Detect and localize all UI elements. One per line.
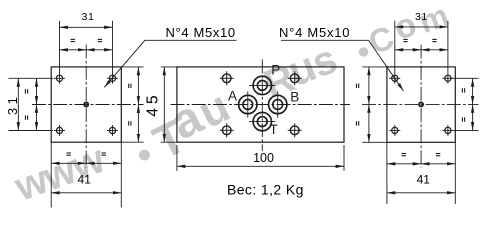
port T [249, 112, 275, 130]
left view bottom: edge witness lines [50, 142, 52, 207]
right view hole top-left [389, 73, 400, 84]
svg-text:45: 45 [144, 91, 161, 116]
right view top dimension 31: witness lines [394, 21, 396, 73]
svg-text:N°4 M5x10: N°4 M5x10 [166, 25, 236, 40]
svg-text:Вес: 1,2 Kg: Вес: 1,2 Kg [227, 182, 304, 198]
middle view top/bottom edge extensions left [161, 66, 177, 68]
left view top equal-split dimension line [60, 49, 87, 51]
left view top equal marks [71, 39, 102, 41]
left view top dimension 31: dimension line [60, 26, 113, 28]
right view top dimension 31 line [395, 26, 448, 28]
right view bottom dimension 41 line [387, 192, 455, 194]
svg-text:N°4 M5x10: N°4 M5x10 [279, 25, 350, 40]
svg-text:T: T [270, 122, 278, 137]
left view center hole [84, 102, 88, 106]
middle view corner hole top-left [220, 71, 234, 85]
left view plate outline [51, 67, 121, 142]
right view top equal marks [403, 39, 436, 41]
svg-text:A: A [228, 89, 237, 104]
svg-text:31: 31 [5, 94, 20, 115]
svg-text:41: 41 [78, 172, 92, 186]
port A [239, 91, 257, 117]
right view horizontal centerline [362, 103, 479, 105]
callout leader right [281, 39, 369, 41]
right view bottom: edge witness lines [386, 142, 388, 204]
svg-text:41: 41 [417, 172, 431, 186]
svg-text:31: 31 [415, 11, 428, 23]
middle view bottom dimension 100 line [177, 165, 344, 167]
middle view bottom dimension 100: witness lines [176, 145, 178, 171]
right view hole top-right [442, 73, 453, 84]
middle view plate outline [177, 67, 344, 142]
left view left dimension 31: witness lines [9, 77, 54, 79]
svg-text:B: B [290, 90, 299, 105]
port P [249, 76, 275, 94]
left view left equal-split dimension line [36, 78, 38, 104]
left view bottom dimension 41 line [51, 192, 121, 194]
right view right side: hole row extensions [453, 77, 479, 79]
right view plate outline [387, 67, 455, 142]
right view left side: edge extensions [362, 66, 387, 68]
left view left dimension 31: dimension line [17, 78, 19, 130]
middle view corner hole bottom-left [220, 123, 234, 137]
right view left equal-split dimension line [368, 67, 370, 105]
left view bottom equal-split dimension line [51, 162, 86, 164]
left view horizontal centerline [32, 104, 144, 106]
left view vertical centerline [85, 45, 87, 168]
middle view corner hole bottom-right [288, 123, 302, 137]
right view hole bottom-left [389, 125, 400, 136]
right view left equal marks [357, 84, 359, 126]
right view right equal-split dimension line [472, 78, 474, 104]
right view right equal marks [462, 88, 464, 122]
left view right equal-split dimension line [137, 67, 139, 105]
middle view corner hole top-right [288, 71, 302, 85]
left view top dimension 31: witness lines [59, 21, 61, 73]
left view left equal marks [25, 89, 27, 120]
left view bottom equal marks [67, 153, 106, 155]
left view hole bottom-left [54, 125, 65, 136]
right view hole bottom-right [442, 125, 453, 136]
right view vertical centerline [420, 45, 422, 168]
middle view vertical centerline [261, 60, 263, 152]
left view right side: edge extensions [121, 66, 143, 68]
right view bottom equal marks [402, 154, 441, 156]
right view bottom equal-split dimension line [387, 163, 421, 165]
left view hole top-right [107, 73, 118, 84]
right view top equal-split dimension line [395, 49, 421, 51]
callout leader left [145, 39, 237, 41]
middle view horizontal centerline [171, 104, 351, 106]
left view hole bottom-right [107, 125, 118, 136]
left view right equal marks [129, 84, 131, 126]
svg-text:P: P [271, 62, 280, 77]
svg-text:31: 31 [82, 11, 95, 23]
middle view 45 dimension line [163, 67, 165, 142]
svg-text:100: 100 [253, 151, 274, 165]
left view hole top-left [54, 73, 65, 84]
port B [269, 91, 287, 117]
right view center hole [419, 102, 423, 106]
